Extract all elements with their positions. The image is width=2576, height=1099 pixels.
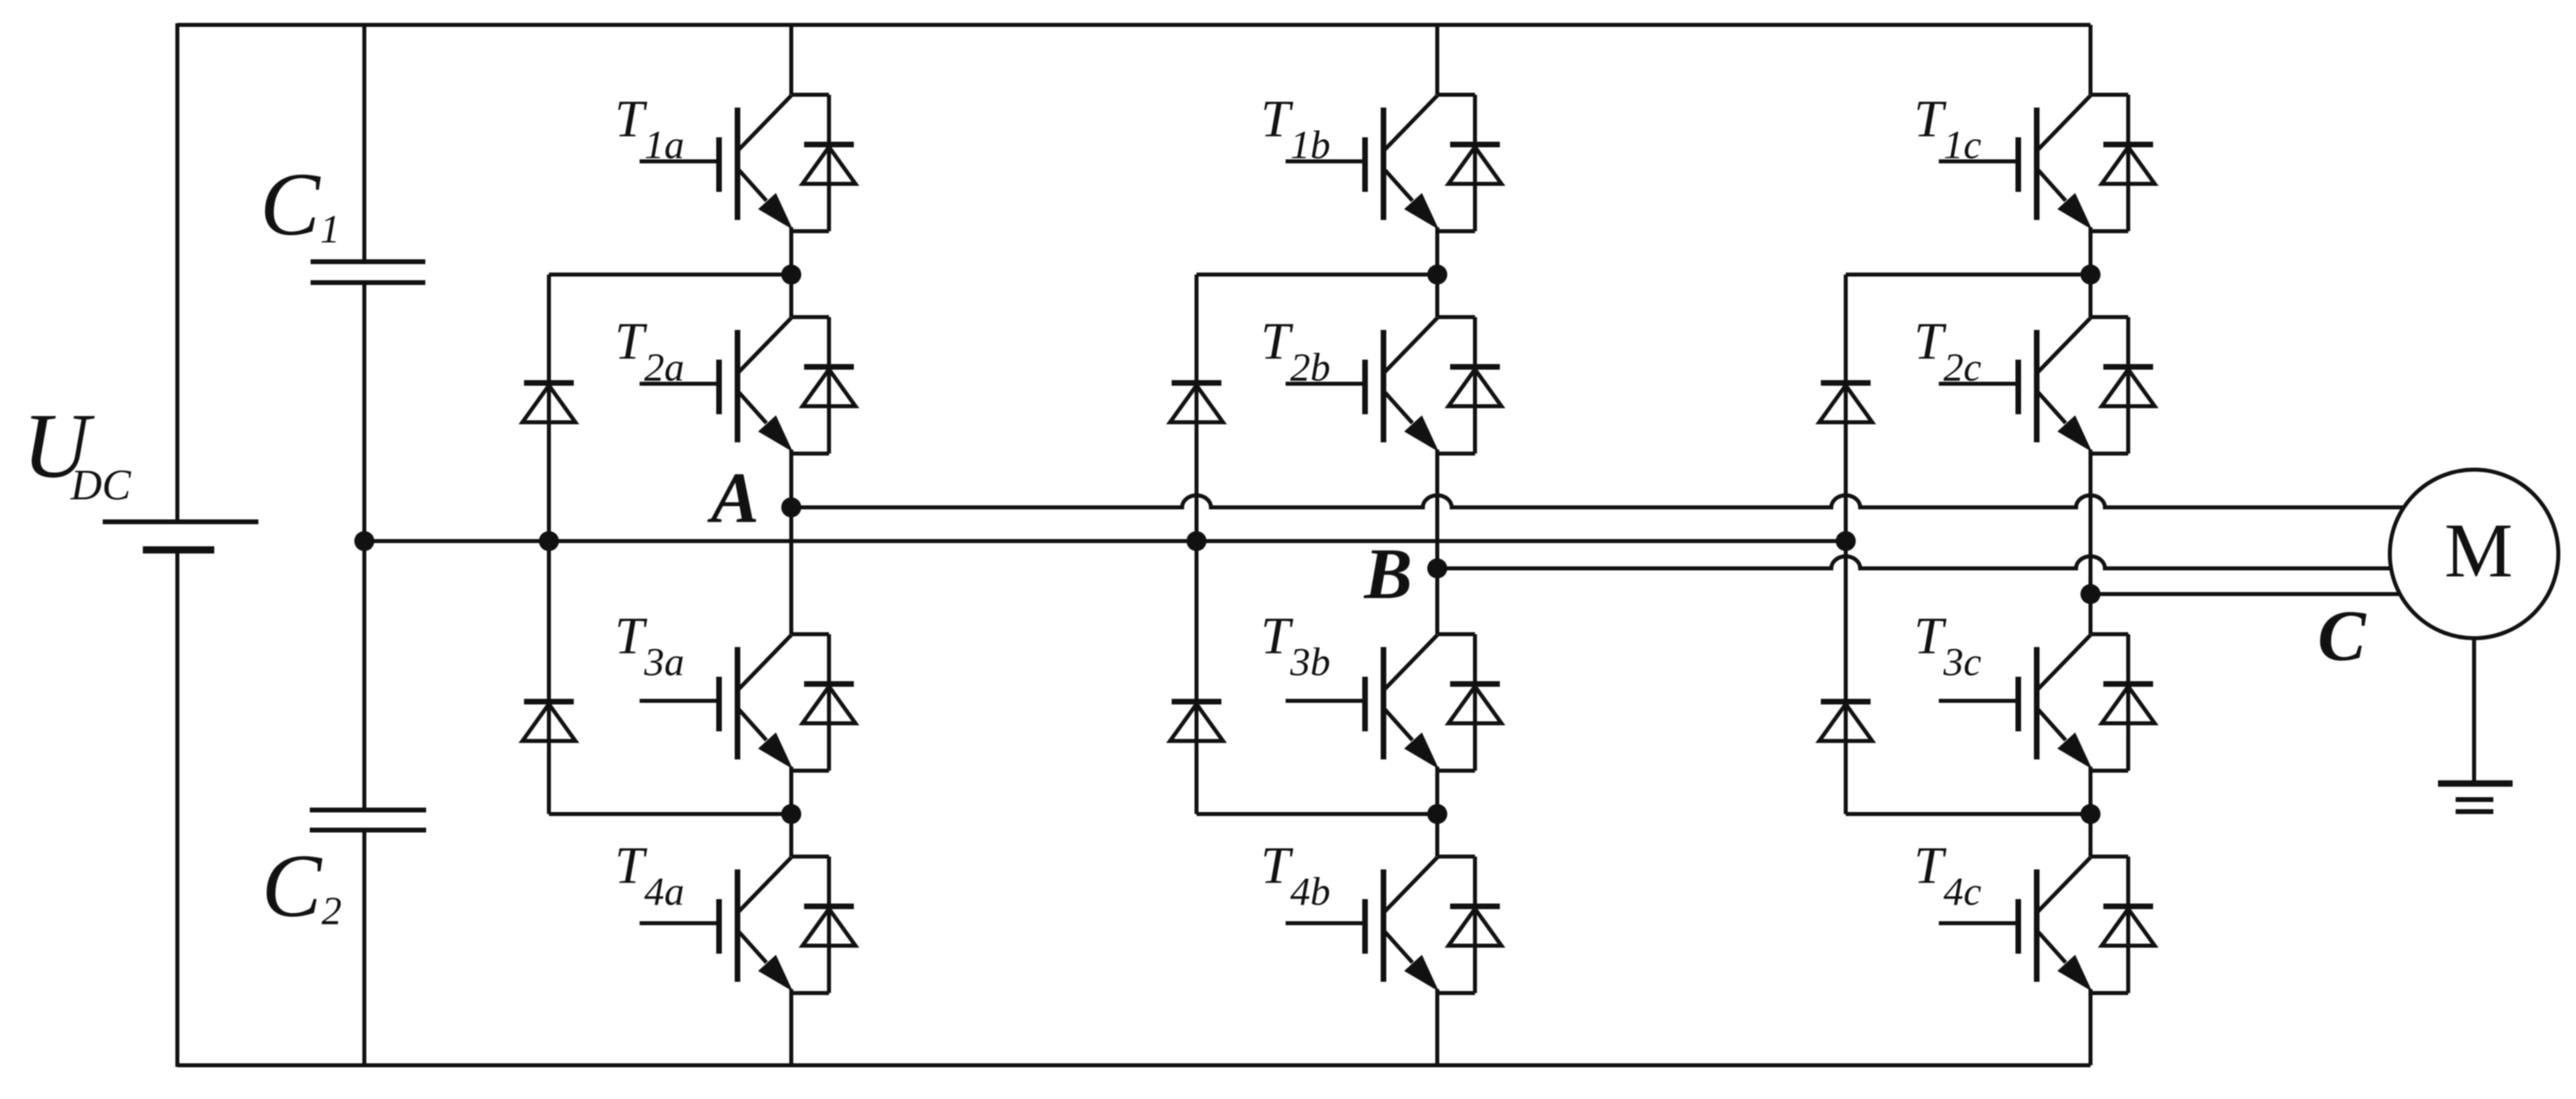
node clamp-neutral phase b	[1187, 531, 1207, 552]
antiparallel diode of T2a	[791, 317, 855, 454]
wire phase a leg T2-T3 (through output node)	[790, 450, 794, 634]
node clamp-neutral phase c	[1836, 531, 1856, 552]
wire top DC+ bus	[177, 23, 2090, 27]
clamp diode lower phase c	[1819, 702, 1872, 741]
antiparallel diode of T4a	[791, 857, 855, 993]
node T3c/T4c junction	[2081, 804, 2101, 824]
wire phase output B	[1437, 556, 2392, 568]
clamp diode upper phase c	[1819, 383, 1872, 422]
wire left rail lower (U_DC to bottom bus)	[176, 553, 180, 1067]
antiparallel diode of T1a	[791, 95, 855, 231]
wire capacitor leg lower (C2 to bottom bus)	[363, 830, 367, 1065]
capacitor C2	[310, 810, 426, 830]
wire phase b leg T1-T2	[1436, 227, 1440, 317]
node neutral at capacitor leg	[355, 531, 375, 552]
wire clamp bottom link phase c	[1846, 812, 2090, 816]
node C	[2081, 584, 2101, 604]
svg-text:DC: DC	[70, 461, 132, 509]
wire capacitor leg upper (top bus to C1)	[363, 23, 367, 262]
wire phase b leg bottom (T4b to bus)	[1436, 989, 1440, 1065]
wire phase output A	[791, 495, 2405, 507]
transistor T3a (IGBT)	[640, 635, 793, 769]
antiparallel diode of T3c	[2090, 634, 2155, 771]
wire phase c leg top (bus to T1c)	[2089, 25, 2093, 95]
wire bottom DC- bus	[177, 1064, 2090, 1068]
clamp diode lower phase b	[1170, 702, 1223, 741]
wire clamp bottom link phase a	[549, 812, 791, 816]
capacitor C1	[311, 262, 425, 283]
transistor T2b (IGBT)	[1286, 318, 1439, 452]
wire phase c leg bottom (T4c to bus)	[2089, 989, 2093, 1065]
transistor T1a (IGBT)	[640, 96, 793, 230]
antiparallel diode of T1b	[1437, 95, 1501, 231]
transistor T4b (IGBT)	[1286, 857, 1439, 991]
wire neutral rail	[364, 539, 1846, 543]
wire phase b leg T3-T4	[1436, 767, 1440, 857]
wire clamp top link phase a	[549, 273, 791, 277]
node B	[1428, 559, 1448, 579]
antiparallel diode of T3b	[1437, 634, 1501, 771]
wire phase b leg T2-T3 (through output node)	[1436, 450, 1440, 634]
node T1b/T2b junction	[1428, 265, 1448, 285]
clamp diode lower phase a	[522, 702, 575, 741]
wire phase output C	[2090, 592, 2401, 596]
node T3b/T4b junction	[1428, 804, 1448, 824]
transistor T3c (IGBT)	[1939, 635, 2092, 769]
antiparallel diode of T4c	[2090, 857, 2155, 993]
wire phase c leg T3-T4	[2089, 767, 2093, 857]
wire phase c leg T1-T2	[2089, 227, 2093, 317]
antiparallel diode of T2c	[2090, 317, 2155, 454]
svg-text:M: M	[2444, 507, 2513, 593]
transistor T4a (IGBT)	[640, 857, 793, 991]
wire left rail upper (U_DC to top bus)	[176, 23, 180, 520]
node A	[782, 498, 802, 518]
transistor T1c (IGBT)	[1939, 96, 2092, 230]
clamp diode upper phase a	[522, 383, 575, 422]
antiparallel diode of T2b	[1437, 317, 1501, 454]
wire phase a leg bottom (T4a to bus)	[790, 989, 794, 1065]
svg-text:A: A	[707, 458, 759, 538]
wire phase a leg T3-T4	[790, 767, 794, 857]
transistor T1b (IGBT)	[1286, 96, 1439, 230]
transistor T3b (IGBT)	[1286, 635, 1439, 769]
wire clamp top link phase b	[1197, 273, 1437, 277]
antiparallel diode of T4b	[1437, 857, 1501, 993]
battery U_DC negative plate	[143, 547, 214, 554]
transistor T4c (IGBT)	[1939, 857, 2092, 991]
antiparallel diode of T3a	[791, 634, 855, 771]
wire clamp branch phase c	[1844, 275, 1848, 814]
wire motor ground lead	[2472, 638, 2476, 784]
wire clamp branch phase a	[547, 275, 551, 814]
svg-text:B: B	[1363, 535, 1412, 614]
wire capacitor leg middle (C1 to C2 through neutral)	[363, 283, 367, 810]
node T1a/T2a junction	[782, 265, 802, 285]
svg-text:C: C	[2318, 596, 2367, 676]
wire phase a leg T1-T2	[790, 227, 794, 317]
transistor T2c (IGBT)	[1939, 318, 2092, 452]
node clamp-neutral phase a	[539, 531, 559, 552]
wire clamp branch phase b	[1195, 275, 1199, 814]
wire clamp bottom link phase b	[1197, 812, 1437, 816]
node T3a/T4a junction	[782, 804, 802, 824]
node T1c/T2c junction	[2081, 265, 2101, 285]
battery U_DC positive plate	[103, 519, 258, 524]
wire clamp top link phase c	[1846, 273, 2090, 277]
wire phase a leg top (bus to T1a)	[790, 25, 794, 95]
ground symbol	[2438, 784, 2513, 812]
transistor T2a (IGBT)	[640, 318, 793, 452]
wire phase c leg T2-T3 (through output node)	[2089, 450, 2093, 634]
motor M circle	[2390, 470, 2558, 638]
antiparallel diode of T1c	[2090, 95, 2155, 231]
clamp diode upper phase b	[1170, 383, 1223, 422]
wire phase b leg top (bus to T1b)	[1436, 25, 1440, 95]
